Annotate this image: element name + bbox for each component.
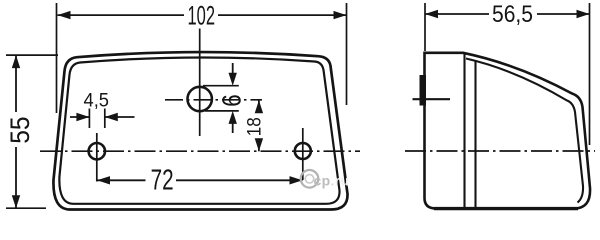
right hole vertical centerline [302, 128, 304, 180]
right hole (4.5mm) [295, 143, 311, 159]
side view bottom edge (thick) [434, 207, 578, 210]
dimension 9 bottom arrow shaft [232, 122, 234, 133]
top hole vertical centerline [199, 29, 201, 137]
arrowhead 72 left [97, 176, 110, 184]
arrowhead 18 bottom [255, 138, 263, 151]
watermark logo inner mark [305, 175, 313, 183]
dimension 18 bottom arrow shaft [258, 139, 260, 152]
dimension 55 top extension line [6, 54, 58, 56]
arrowhead 18 top [255, 100, 263, 113]
arrowhead 4,5 left [76, 113, 89, 121]
svg-text:72: 72 [151, 164, 174, 196]
dimension 56,5 right extension line [589, 3, 591, 145]
arrowhead 102 right [334, 11, 347, 19]
svg-text:cp.ru: cp.ru [314, 173, 350, 189]
top hole horizontal centerline [165, 99, 262, 101]
dimension 4,5 right extension line [104, 109, 106, 129]
left hole (4.5mm) [89, 143, 105, 159]
main horizontal centerline through lower holes [40, 150, 360, 152]
arrowhead 9 top [229, 73, 237, 86]
arrowhead 55 top [12, 55, 20, 68]
dimension 56,5 line [425, 13, 590, 15]
dimension 4,5 right arrow shaft [105, 116, 135, 118]
svg-text:18: 18 [244, 117, 265, 136]
dimension 9 top extension line [203, 85, 239, 87]
front view outer outline [53, 52, 347, 209]
arrowhead 72 right [290, 176, 303, 184]
arrowhead 55 bottom [12, 195, 20, 208]
dimension 102 line [58, 14, 347, 16]
dimension 102 right extension line [346, 3, 348, 105]
side view outer outline [425, 53, 591, 209]
dimension 56,5 left extension line [424, 3, 426, 51]
dimension 9 bottom extension line [205, 110, 239, 112]
svg-text:4,5: 4,5 [84, 91, 110, 112]
side view horizontal centerline [405, 150, 595, 152]
stud axis line [413, 98, 451, 100]
dimension 72 line [97, 179, 303, 181]
side view housing/lens boundary line A [463, 54, 465, 208]
arrowhead 9 bottom [229, 111, 237, 124]
dimension 4,5 left extension line [88, 109, 90, 129]
dimension 55 line [15, 55, 17, 208]
svg-text:102: 102 [188, 1, 216, 31]
arrowhead 4,5 right [105, 113, 118, 121]
side view inner lens line [466, 59, 583, 203]
svg-text:9: 9 [217, 94, 247, 107]
dimension 18 top arrow shaft [258, 100, 260, 109]
svg-text:55: 55 [5, 116, 35, 143]
dimension 4,5 left arrow shaft [70, 116, 89, 118]
dimension 9 top arrow shaft [232, 63, 234, 74]
side view housing/lens boundary line B [474, 60, 476, 208]
dimension 55 bottom extension line [6, 207, 46, 209]
svg-text:56,5: 56,5 [492, 1, 533, 28]
mounting stud (black) [420, 75, 427, 106]
arrowhead 56,5 left [425, 10, 438, 18]
front view inner lens outline [59, 57, 339, 203]
watermark logo circle [301, 170, 319, 188]
arrowhead 56,5 right [577, 10, 590, 18]
dimension 102 left extension line [56, 3, 58, 113]
top hole (9mm) [188, 87, 212, 111]
arrowhead 102 left [58, 11, 71, 19]
left hole vertical centerline [96, 133, 98, 182]
